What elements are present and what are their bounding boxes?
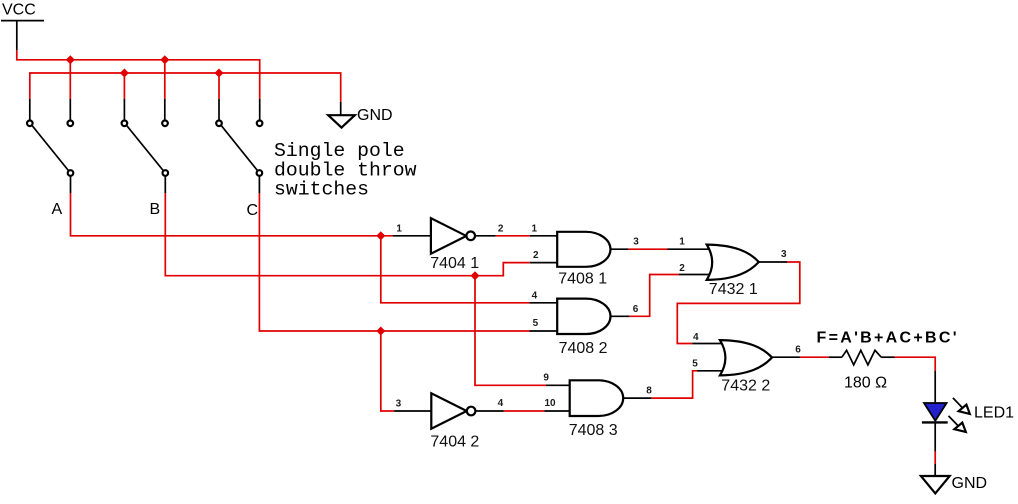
- node junction net B: [471, 271, 480, 280]
- svg-text:VCC: VCC: [2, 2, 36, 19]
- wire drop SW-A right: [69, 60, 71, 99]
- node junction net C: [376, 327, 385, 336]
- node junction bus2-B: [120, 69, 129, 78]
- LED cathode bar: [922, 421, 948, 423]
- wire U3b pin5 stub: [530, 330, 558, 332]
- wire branch A to U2 pin4: [381, 236, 530, 303]
- wire VCC rail (bus1): [17, 50, 260, 99]
- ground top wire: [340, 102, 342, 115]
- svg-text:2: 2: [679, 263, 685, 274]
- svg-text:1: 1: [679, 237, 685, 248]
- svg-text:4: 4: [693, 332, 699, 343]
- wire SW-C pole stub: [258, 176, 260, 193]
- svg-text:2: 2: [533, 250, 539, 261]
- switch S2 contacts: [122, 121, 128, 127]
- svg-text:4: 4: [498, 398, 504, 409]
- wire drop SW-B right: [164, 60, 166, 99]
- or-gate U6 (7432 1): [707, 245, 759, 280]
- svg-text:8: 8: [646, 385, 652, 396]
- wire U5 output to U4 pin10: [475, 410, 504, 412]
- ground bottom symbol: [921, 476, 950, 493]
- and-gate U3a (7408 1): [557, 232, 610, 267]
- switch S2 lever: [126, 125, 163, 171]
- LED arrow 1: [953, 398, 970, 414]
- wire SW-B pole stub: [164, 176, 166, 193]
- svg-text:4: 4: [532, 290, 538, 301]
- svg-text:7432 1: 7432 1: [709, 281, 758, 298]
- node junction bus1-B: [160, 55, 169, 64]
- switch S1 lever: [32, 125, 69, 171]
- VCC bar: [1, 20, 44, 22]
- svg-text:7432 2: 7432 2: [721, 377, 770, 394]
- wire contact stubs black: [29, 99, 31, 120]
- inverter U1 (7404 1): [431, 218, 475, 254]
- wire resistor to LED: [934, 371, 936, 402]
- wire net A: [71, 193, 393, 236]
- wire U3b pin4 stub: [530, 302, 558, 304]
- svg-text:LED1: LED1: [974, 404, 1014, 421]
- switch S3 lever: [221, 125, 258, 171]
- svg-text:10: 10: [545, 398, 557, 409]
- svg-text:C: C: [247, 202, 259, 219]
- svg-text:2: 2: [498, 223, 504, 234]
- svg-text:6: 6: [795, 345, 801, 356]
- svg-text:180 Ω: 180 Ω: [844, 375, 887, 392]
- inverter U5 (7404 2): [431, 393, 475, 428]
- wire drop SW-B left: [123, 73, 125, 99]
- svg-text:5: 5: [533, 318, 539, 329]
- wire U5 input stub: [394, 410, 431, 412]
- node junction bus2-C: [215, 69, 224, 78]
- svg-text:GND: GND: [357, 107, 393, 124]
- LED arrow 2: [949, 416, 966, 432]
- ground top symbol: [328, 115, 355, 127]
- wire U3a pin2 stub: [530, 262, 557, 264]
- and-gate U3b (7408 2): [557, 299, 610, 334]
- node junction net A: [376, 231, 385, 240]
- svg-text:7404 1: 7404 1: [430, 255, 479, 272]
- svg-text:3: 3: [633, 236, 639, 247]
- svg-text:7408 3: 7408 3: [569, 422, 618, 439]
- wire GND rail (bus2): [30, 73, 341, 102]
- or-gate U7 (7432 2): [720, 340, 772, 375]
- resistor R1: [842, 350, 881, 365]
- svg-text:3: 3: [396, 398, 402, 409]
- svg-text:5: 5: [692, 359, 698, 370]
- wire VCC stub: [16, 21, 18, 50]
- svg-text:F=A'B+AC+BC': F=A'B+AC+BC': [817, 330, 959, 347]
- svg-text:9: 9: [543, 373, 549, 384]
- svg-text:1: 1: [396, 223, 402, 234]
- LED D1: [924, 403, 947, 421]
- and-gate U4 (7408 3): [570, 380, 624, 416]
- wire net B: [165, 193, 530, 276]
- switch S3 contacts: [216, 121, 222, 127]
- wire LED to GND: [934, 424, 936, 452]
- switch S1 contacts: [27, 121, 33, 127]
- svg-text:GND: GND: [952, 475, 988, 492]
- wire U1 input stub: [393, 235, 431, 237]
- svg-text:B: B: [150, 201, 161, 218]
- wire net C: [259, 193, 529, 331]
- node junction bus1-A: [66, 55, 75, 64]
- svg-text:3: 3: [781, 249, 787, 260]
- svg-text:7408 2: 7408 2: [559, 340, 608, 357]
- svg-text:7408 1: 7408 1: [558, 271, 607, 288]
- wire U4 pin8 output to U7 pin5: [623, 397, 651, 399]
- wire U6 output to U7 pin4: [759, 261, 787, 263]
- svg-text:1: 1: [532, 223, 538, 234]
- wire drop SW-C left: [218, 73, 220, 99]
- wire branch C to U5 pin3: [381, 331, 394, 411]
- wire U4 pin9 stub: [546, 384, 570, 386]
- svg-text:switches: switches: [274, 179, 369, 201]
- wire U1 output: [475, 235, 496, 237]
- wire U3b pin6 output to U6 pin2: [611, 315, 630, 317]
- svg-text:7404 2: 7404 2: [430, 434, 479, 451]
- wire SW-A pole stub: [70, 176, 72, 193]
- svg-text:6: 6: [633, 304, 639, 315]
- wire U7 pin6 output to resistor: [772, 356, 800, 358]
- wire U3a output to U6 pin1: [611, 248, 629, 250]
- wire branch B to U4 pin9: [475, 276, 546, 386]
- svg-text:A: A: [52, 201, 63, 218]
